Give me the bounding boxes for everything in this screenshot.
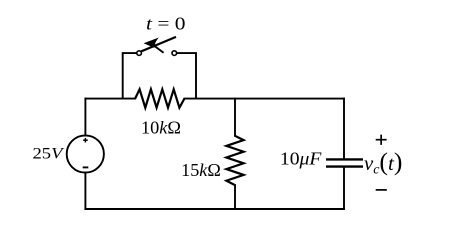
svg-text:10μF: 10μF [280,149,323,169]
svg-text:t = 0: t = 0 [146,14,186,34]
svg-text:25V: 25V [33,144,65,163]
svg-text:10kΩ: 10kΩ [141,118,181,138]
svg-text:15kΩ: 15kΩ [181,160,221,180]
svg-text:vc(t): vc(t) [364,149,403,176]
